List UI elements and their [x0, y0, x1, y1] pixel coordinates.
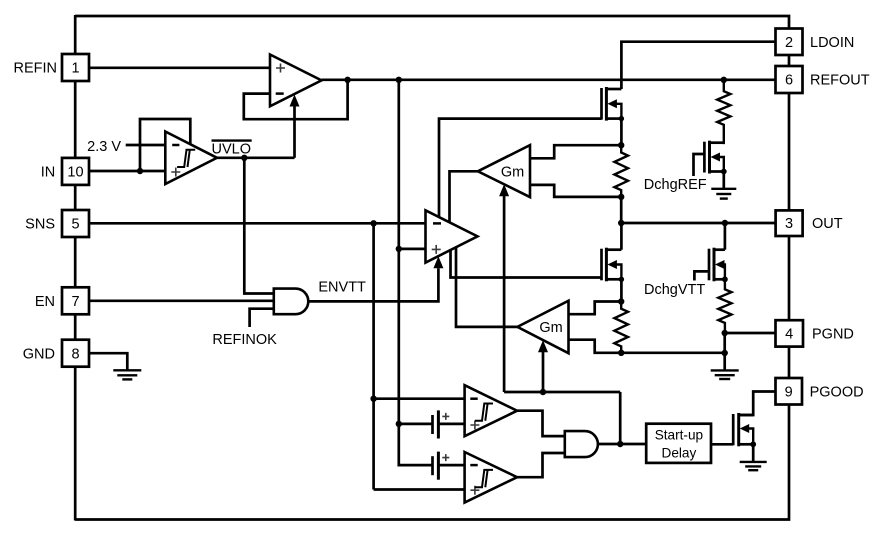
wire U1 enable from UVLO with arrow [293, 106, 296, 158]
wire Q2 source to resistor [620, 279, 623, 301]
pin 2 LDOIN [776, 29, 855, 56]
svg-text:SNS: SNS [25, 216, 55, 232]
wire enable branch up [619, 392, 622, 444]
wire REFOUT sense rail [397, 80, 400, 424]
wire Q2 drain to OUT node [620, 223, 623, 250]
pin 8 GND [23, 340, 89, 367]
node REFOUT rail top [396, 77, 402, 83]
svg-text:3: 3 [785, 216, 793, 232]
node U4 non-inverting input [396, 246, 402, 252]
pin 9 PGOOD [776, 378, 864, 405]
wire U1 output to REFOUT [322, 78, 776, 81]
comparator U7 PGOOD high [465, 385, 517, 436]
wire left supply rail [74, 15, 77, 521]
wire U4 to source FET gate [439, 119, 602, 218]
wire U2 hysteresis feedback box [140, 119, 190, 171]
wire OUT to DchgVTT drain [724, 223, 727, 250]
wire U5 enable with arrow [503, 196, 506, 392]
node R4 bottom [722, 330, 728, 336]
resistor R4 DchgVTT pulldown [718, 279, 731, 335]
wire UVLO to AND gate [244, 158, 273, 294]
resistor R1 upper divider [614, 142, 628, 200]
node U1 output feedback [344, 77, 350, 83]
svg-text:PGND: PGND [812, 326, 854, 342]
svg-text:ENVTT: ENVTT [318, 279, 366, 295]
node OUT [618, 220, 624, 226]
wire REFINOK stub [250, 309, 274, 327]
svg-text:EN: EN [35, 294, 55, 310]
svg-text:LDOIN: LDOIN [810, 35, 854, 51]
svg-text:2: 2 [785, 35, 793, 51]
wire lower Gm output to U4 [456, 247, 517, 327]
wire upper Gm output to U4 [450, 171, 478, 223]
wire R4 to PGND pin [725, 332, 776, 335]
wire U6 input upper to resistor top [569, 302, 622, 315]
wire U7 output to AND [517, 411, 565, 436]
wire right rail pin2-pin6 [788, 55, 791, 66]
pin 3 OUT [776, 210, 843, 236]
wire IN to UVLO comparator [89, 170, 165, 173]
svg-text:1: 1 [71, 61, 79, 77]
wire U4 to sink FET gate [451, 250, 602, 278]
resistor R2 lower divider [614, 298, 628, 356]
svg-text:2.3 V: 2.3 V [87, 139, 121, 155]
pin 6 REFOUT [776, 66, 870, 93]
wire U1 feedback loop [244, 80, 348, 119]
node REFOUT to DchgREF resistor [721, 77, 727, 83]
ground at GND pin [113, 370, 141, 379]
wire SNS to U7 inverting input [374, 397, 465, 400]
wire R1 to OUT node [620, 197, 623, 223]
wire U9 output to delay [598, 443, 646, 446]
svg-text:IN: IN [41, 165, 56, 181]
wire bottom border to PGOOD rail [75, 405, 789, 520]
node SNS comparator branch [370, 396, 376, 402]
svg-text:9: 9 [785, 384, 793, 400]
op-amp U4 VTT error amp [426, 210, 478, 262]
wire 2.3V to U2 inverting input [126, 144, 166, 147]
wire rail to U4 non-inverting input [399, 248, 426, 251]
svg-text:REFINOK: REFINOK [212, 332, 277, 348]
wire cap rail to C2 [399, 424, 433, 465]
node enable branch [617, 441, 623, 447]
pin 7 EN [35, 287, 89, 314]
svg-text:PGOOD: PGOOD [810, 384, 864, 400]
pin 10 IN [41, 158, 89, 185]
wire PGND node down [723, 333, 726, 353]
node cap rail branch [396, 421, 402, 427]
svg-text:Delay: Delay [662, 446, 697, 461]
amplifier U6 lower Gm [517, 301, 568, 354]
svg-text:DchgVTT: DchgVTT [644, 282, 705, 298]
resistor R3 DchgREF pulldown [717, 80, 730, 144]
pin 1 REFIN [14, 54, 90, 81]
wire LDOIN to Q1 drain [621, 42, 775, 89]
wire divider bottom to PGND [621, 351, 725, 354]
wire SNS to U8 non-inverting input [374, 488, 465, 491]
wire Q5 drain to pin 9 [739, 392, 776, 416]
wire U6 enable with arrow [542, 352, 545, 392]
pin 4 PGND [776, 320, 854, 346]
node PGND ground [722, 350, 728, 356]
wire right rail pin3-pin4 [788, 236, 791, 320]
wire GND pin to ground [89, 353, 127, 370]
svg-text:Gm: Gm [539, 320, 562, 336]
node enable rail [540, 389, 546, 395]
wire right rail pin4-pin9 [788, 347, 791, 378]
wire SNS to error amp inverting input [89, 222, 426, 225]
svg-text:8: 8 [71, 346, 79, 362]
svg-text:UVLO: UVLO [212, 142, 252, 158]
wire OUT node to pin 3 [621, 222, 775, 225]
ground at PGND [711, 353, 739, 379]
node SNS branch [370, 220, 376, 226]
wire REFIN to op-amp [89, 66, 270, 69]
wire enable rail to Gm amps [504, 391, 620, 394]
capacitor C2 offset [433, 452, 465, 480]
transistor Q5 PGOOD FET [733, 413, 756, 447]
svg-text:REFOUT: REFOUT [810, 73, 870, 89]
transistor Q3 DchgREF FET [694, 141, 727, 176]
wire U5 input upper to resistor top [530, 145, 621, 158]
node UVLO output [241, 155, 247, 161]
node IN junction [137, 168, 143, 174]
wire ENVTT to error amp enable with arrow [308, 268, 438, 301]
comparator U2 UVLO [165, 132, 217, 185]
svg-text:Start-up: Start-up [655, 427, 703, 442]
svg-text:GND: GND [23, 346, 55, 362]
wire cap rail to C1 [399, 423, 433, 426]
svg-text:4: 4 [785, 326, 793, 342]
svg-text:OUT: OUT [812, 216, 843, 232]
capacitor C1 offset [433, 410, 465, 438]
svg-text:7: 7 [71, 294, 79, 310]
ground at DchgREF [711, 172, 736, 199]
comparator U8 PGOOD low [465, 452, 517, 503]
wire SNS branch down [372, 223, 375, 489]
wire top border to LDOIN [75, 16, 789, 29]
amplifier U5 upper Gm [478, 145, 530, 197]
wire right rail pin6-pin3 [788, 93, 791, 210]
wire EN to AND gate [89, 299, 274, 302]
transistor Q2 sink FET [602, 248, 625, 282]
wire U5 input lower to resistor bottom [530, 185, 621, 197]
svg-text:5: 5 [71, 216, 79, 232]
svg-text:Gm: Gm [501, 164, 524, 180]
wire U8 output to AND [517, 453, 565, 477]
transistor Q4 DchgVTT FET [694, 248, 727, 282]
node OUT DchgVTT branch [722, 220, 728, 226]
block start-up delay [646, 424, 711, 463]
wire U2 output UVLO [217, 156, 295, 159]
wire delay to Q5 gate [711, 443, 733, 446]
ground at Q5 source [740, 444, 767, 470]
and-gate U3 ENVTT [274, 289, 309, 315]
wire U6 input lower to resistor bottom [569, 340, 622, 353]
pin 5 SNS [25, 210, 89, 237]
svg-text:6: 6 [785, 73, 793, 89]
svg-text:REFIN: REFIN [14, 61, 58, 77]
wire Q1 source to resistor [620, 119, 623, 146]
svg-text:DchgREF: DchgREF [644, 177, 707, 193]
and-gate U9 PGOOD [565, 431, 598, 457]
svg-text:10: 10 [67, 165, 83, 181]
op-amp U1 REFIN buffer [270, 55, 322, 107]
transistor Q1 source FET [602, 87, 625, 121]
